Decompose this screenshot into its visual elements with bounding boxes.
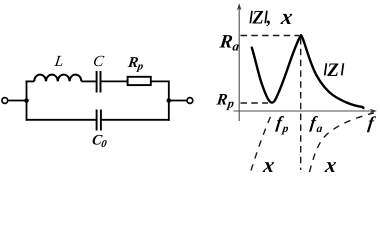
label Rp (215, 92, 236, 111)
svg-text:Rp: Rp (126, 55, 145, 73)
resistor Rp (128, 77, 151, 85)
inductor L (34, 75, 81, 82)
svg-text:x: x (279, 4, 294, 29)
svg-text:L: L (53, 53, 65, 70)
label |Z| (325, 60, 344, 81)
label fp (275, 113, 291, 135)
capacitor C (97, 71, 101, 93)
axis label |Z|, x (250, 4, 294, 29)
label Rp (126, 55, 145, 73)
wire bottom rail left (26, 119, 96, 121)
left terminal circle (2, 98, 8, 104)
dashed line Rp level (241, 102, 269, 104)
wire Rp to right corner (151, 81, 169, 120)
svg-text:f: f (367, 112, 377, 132)
wire inductor to C (81, 80, 96, 82)
wire left terminal to node A (8, 100, 27, 102)
label L (53, 53, 65, 70)
wire left vertical (26, 81, 28, 121)
label Ra (217, 32, 241, 54)
svg-text:fa: fa (309, 113, 325, 135)
label x left (261, 153, 276, 177)
label C (92, 53, 105, 70)
svg-text:Rp: Rp (215, 92, 236, 111)
label f (367, 112, 377, 132)
x-axis (234, 110, 375, 112)
svg-text:C: C (92, 53, 105, 70)
svg-text:,: , (266, 9, 272, 29)
wire C to Rp (101, 80, 127, 82)
node B junction dot (167, 98, 172, 103)
wire bottom rail right (102, 119, 170, 121)
svg-text:fp: fp (275, 113, 291, 135)
svg-text:x: x (261, 153, 276, 176)
dashed line Ra level (241, 35, 300, 37)
y-axis (238, 6, 240, 122)
svg-text:Z: Z (326, 60, 339, 81)
label fa (309, 113, 325, 135)
svg-text:Ra: Ra (217, 32, 241, 54)
|Z| impedance curve (252, 35, 364, 108)
label C0 (91, 133, 109, 150)
node A junction dot (24, 98, 29, 103)
wire node B to right terminal (169, 100, 187, 102)
wire top rail left (26, 80, 35, 82)
svg-text:Z: Z (251, 8, 263, 28)
dashed vertical line at fa (300, 38, 302, 170)
dashed reactance curve left branch (251, 115, 272, 171)
svg-text:x: x (323, 153, 338, 176)
svg-text:C0: C0 (91, 133, 109, 150)
label x right (323, 153, 338, 177)
dashed reactance curve right branch (310, 113, 375, 172)
capacitor C0 (97, 110, 101, 131)
right terminal circle (187, 98, 193, 104)
